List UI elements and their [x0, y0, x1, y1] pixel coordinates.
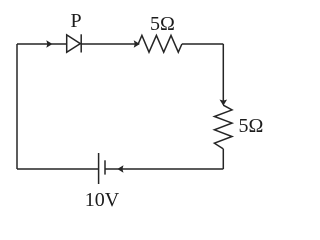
- wire right vertical lower segment: [222, 149, 224, 169]
- battery 10V positive plate (long): [98, 153, 100, 184]
- current direction arrow on bottom wire pointing left: [117, 165, 123, 173]
- wire top segment from resistor R1 to top-right corner: [182, 43, 223, 45]
- svg-text:P: P: [71, 10, 82, 32]
- current direction arrow before resistor R1: [134, 40, 140, 48]
- wire top segment from top-left corner to diode anode: [17, 43, 67, 45]
- wire right vertical upper segment: [222, 44, 224, 105]
- diode P (triangle): [67, 35, 81, 52]
- current direction arrow on right wire pointing down: [220, 100, 228, 106]
- svg-text:5Ω: 5Ω: [150, 13, 175, 35]
- svg-text:5Ω: 5Ω: [239, 115, 264, 137]
- svg-text:10V: 10V: [85, 189, 120, 211]
- diode P cathode bar: [80, 34, 82, 52]
- wire bottom segment from bottom-right corner to battery negative plate: [105, 168, 223, 170]
- resistor R2 5 ohm vertical zigzag: [214, 105, 232, 149]
- wire bottom segment from battery positive plate to bottom-left corner: [17, 168, 99, 170]
- wire left vertical: [16, 44, 18, 169]
- wire top segment from diode cathode to resistor R1: [81, 43, 139, 45]
- resistor R1 5 ohm horizontal zigzag: [138, 35, 182, 52]
- battery 10V negative plate (short): [104, 160, 106, 174]
- current direction arrow on top-left wire: [46, 40, 52, 48]
